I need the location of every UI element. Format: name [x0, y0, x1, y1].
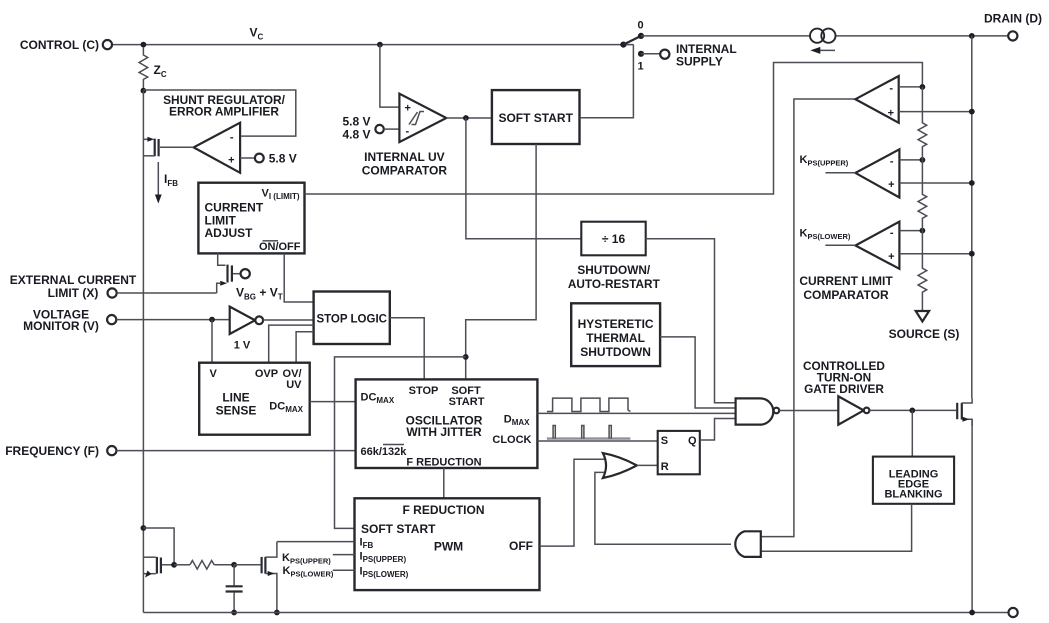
ground arrow SOURCE (S) — [916, 311, 929, 322]
terminal VOLTAGE MONITOR (V) — [107, 315, 116, 324]
svg-text:+: + — [888, 179, 894, 191]
svg-text:R: R — [661, 461, 669, 473]
wire comp3 minus to chain — [899, 230, 922, 232]
transistor Q2 external-limit MOSFET with gate circle — [217, 253, 250, 293]
terminal CONTROL (C) — [103, 40, 112, 49]
wire contact1 to internal supply — [641, 53, 660, 55]
node junction Q5 source bottom — [274, 610, 280, 616]
terminal FREQUENCY (F) — [107, 446, 116, 455]
svg-text:FREQUENCY (F): FREQUENCY (F) — [5, 444, 99, 458]
wire line sense DCmax to oscillator — [310, 401, 356, 403]
wire comp1 plus to drain rail — [899, 111, 972, 113]
wire OR out to latch R — [637, 464, 658, 466]
svg-text:INTERNAL UV: INTERNAL UV — [364, 150, 444, 164]
wire V down to line sense — [211, 320, 213, 363]
svg-text:OVP: OVP — [255, 368, 278, 380]
wire Vc down to UV comparator plus — [380, 45, 400, 108]
wire stub I_PS(UPPER) — [333, 554, 355, 556]
transistor Q3 output MOSFET — [957, 398, 972, 426]
op-amp U7 current limit comparator 1 — [855, 76, 898, 123]
transistor Q5 mirror right MOSFET — [262, 542, 277, 613]
svg-text:V: V — [210, 368, 218, 380]
wire comp3 plus to drain rail — [899, 253, 971, 255]
wire stop logic output to oscillator STOP — [390, 318, 424, 380]
node junction gate net — [171, 562, 177, 568]
transistor Q4 mirror left MOSFET — [143, 557, 174, 578]
resistor Z_C — [139, 47, 148, 91]
wire stop logic to OV/UV — [296, 332, 314, 363]
waveform CLOCK spikes — [547, 426, 631, 439]
wire V_I(LIMIT) to divider chain top — [305, 63, 923, 195]
wire op-amp output to shunt MOSFET gate — [160, 146, 194, 148]
wire gate node down to LEB box — [911, 410, 913, 456]
wire LEB bottom to AND lower input — [761, 504, 912, 551]
node K_PS(UPPER) output stub — [825, 172, 855, 174]
wire latch Q to NAND input4 — [700, 419, 736, 441]
wire UV output to soft start — [446, 117, 492, 119]
wire Q5 drain to PWM I_FB — [277, 541, 355, 543]
svg-text:START: START — [449, 396, 485, 408]
node junction V / line sense — [209, 317, 215, 323]
wire comp2 minus to chain — [899, 159, 922, 161]
box CURRENT LIMIT ADJUST — [198, 183, 304, 254]
svg-text:SUPPLY: SUPPLY — [676, 55, 723, 69]
node K_PS(LOWER) output stub — [825, 244, 855, 246]
svg-text:CURRENT LIMIT: CURRENT LIMIT — [799, 274, 893, 288]
box SR latch — [658, 431, 700, 474]
svg-text:+: + — [888, 108, 894, 120]
wire buffer to stop logic — [263, 319, 314, 321]
terminal DRAIN (D) — [969, 33, 975, 39]
svg-text:÷ 16: ÷ 16 — [602, 232, 626, 246]
resistor R_mirror — [190, 561, 214, 570]
box STOP LOGIC — [314, 292, 390, 345]
svg-text:-: - — [889, 83, 893, 95]
switch shutdown-restart: pole dot — [620, 42, 626, 48]
svg-text:5.8 V: 5.8 V — [342, 115, 370, 129]
wire V to buffer — [116, 319, 229, 321]
switch contact 0 — [638, 33, 644, 39]
wire soft start right to Vc switch — [580, 45, 634, 118]
box OSCILLATOR WITH JITTER — [356, 379, 538, 468]
wire ON/OFF to stop logic — [284, 253, 313, 302]
svg-text:LIMIT (X): LIMIT (X) — [48, 286, 99, 300]
svg-text:-: - — [406, 126, 410, 138]
svg-text:SHUTDOWN: SHUTDOWN — [580, 345, 651, 359]
svg-text:S: S — [661, 435, 668, 447]
svg-text:MONITOR (V): MONITOR (V) — [23, 319, 99, 333]
svg-text:STOP LOGIC: STOP LOGIC — [316, 314, 387, 326]
wire error-amp feedback loop around title — [143, 90, 295, 136]
inverter U5 controlled turn-on gate driver — [838, 396, 869, 424]
node junction gate/LEB — [909, 408, 915, 414]
wire soft-start branch to PWM — [335, 357, 466, 529]
wire drain rail right side — [971, 36, 973, 398]
svg-text:HYSTERETIC: HYSTERETIC — [578, 317, 654, 331]
svg-text:SOFT START: SOFT START — [498, 111, 573, 125]
svg-text:F REDUCTION: F REDUCTION — [403, 503, 485, 517]
transistor Q1 shunt MOSFET — [143, 137, 158, 157]
gate NAND U4 — [736, 398, 780, 424]
wire gate net to Q5 — [234, 564, 260, 566]
svg-text:4.8 V: 4.8 V — [342, 128, 370, 142]
svg-text:-: - — [890, 227, 894, 239]
svg-text:AUTO-RESTART: AUTO-RESTART — [568, 277, 661, 291]
box LINE SENSE — [199, 363, 310, 435]
resistor divider R1 — [918, 87, 927, 160]
svg-text:F REDUCTION: F REDUCTION — [406, 457, 481, 469]
wire UV minus stub — [384, 128, 400, 130]
svg-text:LINE: LINE — [222, 391, 249, 405]
waveform D_MAX square wave — [547, 398, 631, 411]
svg-text:SENSE: SENSE — [216, 404, 257, 418]
wire op-amp plus to 5.8V — [240, 157, 255, 159]
svg-text:1 V: 1 V — [234, 340, 251, 352]
svg-text:-: - — [230, 132, 234, 144]
svg-text:GATE DRIVER: GATE DRIVER — [804, 382, 884, 396]
svg-text:66k/132k: 66k/132k — [361, 446, 408, 458]
wire stub I_PS(LOWER) — [333, 569, 355, 571]
terminal INTERNAL SUPPLY — [660, 50, 669, 59]
wire comp2 plus to drain rail — [899, 182, 971, 184]
buffer 1V comparator — [230, 307, 263, 352]
svg-text:5.8 V: 5.8 V — [269, 152, 297, 166]
node junction Vc/UV — [377, 42, 383, 48]
wire divide16 out to NAND input1 — [646, 239, 736, 403]
wire mirror gate tie — [143, 528, 174, 565]
svg-text:+: + — [888, 251, 894, 263]
op-amp U2 internal UV comparator — [399, 94, 446, 142]
svg-text:COMPARATOR: COMPARATOR — [803, 288, 889, 302]
node junction UV out — [463, 115, 469, 121]
svg-text:COMPARATOR: COMPARATOR — [362, 164, 448, 178]
wire gate net to resistor — [174, 564, 190, 566]
op-amp U8 current limit comparator 2 K_PS(UPPER) — [855, 149, 899, 197]
svg-text:EXTERNAL CURRENT: EXTERNAL CURRENT — [10, 273, 137, 287]
svg-text:UV: UV — [286, 379, 302, 391]
wire PWM OFF up to OR gate — [540, 459, 606, 546]
gate AND U6 (pointing left) — [735, 531, 761, 557]
svg-text:SOFT START: SOFT START — [361, 522, 436, 536]
svg-text:OFF: OFF — [509, 539, 533, 553]
node junction soft-start net — [463, 354, 469, 360]
switch contact 1 — [638, 51, 644, 57]
resistor divider R2 — [918, 160, 927, 231]
svg-text:CONTROL (C): CONTROL (C) — [20, 38, 99, 52]
terminal source bottom right — [1009, 608, 1018, 617]
svg-text:WITH JITTER: WITH JITTER — [406, 425, 482, 439]
wire F REDUCTION down to PWM — [443, 468, 445, 498]
svg-text:CLOCK: CLOCK — [492, 434, 531, 446]
box LEADING EDGE BLANKING — [873, 457, 954, 504]
svg-text:CURRENT: CURRENT — [205, 201, 264, 215]
wire resistor to cap node — [214, 564, 234, 566]
terminal 5.8 V reference — [255, 154, 264, 163]
wire AND output to left — [595, 543, 731, 545]
terminal 5.8V/4.8V UV threshold — [375, 125, 383, 133]
wire UV out down to divide-by-16 — [466, 118, 581, 239]
node junction cap — [231, 562, 237, 568]
wire left rail down from Zc to bottom — [142, 91, 144, 613]
wire V_C main rail from CONTROL to switch — [112, 44, 634, 46]
op-amp U9 current limit comparator 3 K_PS(LOWER) — [855, 222, 899, 269]
wire comp1 minus to chain — [899, 86, 923, 88]
box PWM — [355, 498, 540, 590]
terminal EXTERNAL CURRENT LIMIT (X) — [108, 288, 117, 297]
svg-text:ERROR AMPLIFIER: ERROR AMPLIFIER — [169, 105, 279, 119]
switch blade — [623, 36, 641, 45]
node junction bottom right — [969, 610, 975, 616]
wire stop logic to OVP — [269, 325, 314, 363]
wire top rail to drain — [641, 35, 1008, 37]
svg-text:THERMAL: THERMAL — [586, 331, 645, 345]
wire driver to output MOSFET gate — [869, 409, 956, 411]
svg-text:STOP: STOP — [409, 385, 439, 397]
svg-text:SHUTDOWN/: SHUTDOWN/ — [577, 263, 650, 277]
wire OR bottom input to AND output net — [595, 472, 731, 544]
box HYSTERETIC THERMAL SHUTDOWN — [571, 303, 660, 366]
svg-text:ON/OFF: ON/OFF — [259, 241, 301, 253]
node junction cap bottom — [231, 610, 237, 616]
wire comparator1 output down to AND upper input — [761, 99, 856, 537]
wire NAND out to driver — [779, 410, 838, 412]
wire F to oscillator — [116, 450, 355, 452]
svg-text:BLANKING: BLANKING — [884, 489, 942, 501]
svg-text:Q: Q — [688, 435, 697, 447]
capacitor C1 — [226, 565, 243, 613]
wire X to Q2 source — [117, 292, 217, 294]
resistor divider R3 — [918, 231, 927, 311]
wire soft start bottom to oscillator/pwm soft-start inputs — [466, 144, 536, 379]
svg-text:VBG + VT: VBG + VT — [236, 286, 283, 302]
svg-text:DRAIN (D): DRAIN (D) — [984, 12, 1042, 26]
svg-text:-: - — [890, 156, 894, 168]
node junction Zc bottom — [141, 88, 147, 94]
box SOFT START — [492, 90, 580, 144]
node junction Vc/Zc — [141, 42, 147, 48]
svg-text:SOURCE (S): SOURCE (S) — [889, 327, 960, 341]
svg-text:1: 1 — [637, 61, 643, 73]
svg-text:+: + — [228, 155, 234, 167]
svg-text:ADJUST: ADJUST — [205, 226, 254, 240]
current source I — [810, 29, 836, 54]
gate OR U3 — [603, 453, 637, 478]
svg-text:+: + — [405, 103, 411, 115]
svg-text:PWM: PWM — [434, 540, 463, 554]
wire bottom rail — [143, 612, 1008, 614]
wire CLOCK to latch S — [537, 440, 657, 442]
svg-text:0: 0 — [637, 20, 643, 32]
box divide by 16 — [581, 222, 645, 256]
wire source down to bottom rail — [971, 419, 973, 612]
node I_FB arrow annotation — [155, 162, 178, 204]
wire D_MAX to NAND input3 — [537, 412, 735, 414]
node junction mirror top — [141, 525, 147, 531]
wire thermal out to NAND input2 — [660, 337, 736, 408]
